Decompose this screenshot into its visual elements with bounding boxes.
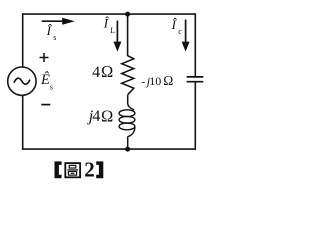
AC source E_s: sine symbol	[14, 78, 30, 84]
wire: right upper segment	[194, 13, 196, 76]
svg-text:Ω: Ω	[163, 73, 173, 88]
svg-text:Ω: Ω	[101, 62, 113, 81]
svg-text:4: 4	[92, 108, 100, 125]
svg-text:L: L	[110, 26, 115, 35]
arrow: I_s current (right)	[42, 18, 75, 25]
caption: right lenticular bracket	[96, 161, 103, 178]
label: - polarity	[41, 104, 50, 106]
caption: CJK character tu (figure)	[65, 163, 80, 177]
label: j4 ohm	[87, 107, 113, 126]
resistor 4ohm: zigzag	[122, 56, 134, 95]
wire: middle branch upper	[127, 13, 129, 56]
svg-text:c: c	[178, 27, 182, 36]
wire: left upper segment	[22, 13, 24, 67]
svg-text:Î: Î	[103, 15, 110, 30]
label: E_s (source voltage)	[40, 71, 53, 92]
wire: bottom rail	[22, 148, 195, 150]
label: -j10 ohm	[141, 73, 173, 88]
svg-text:Î: Î	[46, 23, 53, 38]
svg-text:Ω: Ω	[101, 107, 113, 126]
node: top junction	[125, 12, 130, 17]
wire: inductor to bottom junction	[127, 136, 129, 149]
node: bottom junction	[125, 147, 130, 152]
svg-text:s: s	[50, 83, 53, 92]
wire: resistor to inductor	[127, 95, 129, 105]
arrow: I_C current (down)	[182, 20, 190, 52]
AC source E_s: circle	[8, 67, 36, 95]
svg-text:-: -	[141, 74, 145, 88]
wire: right lower segment	[194, 82, 196, 149]
label: I_L	[103, 15, 116, 35]
svg-text:4: 4	[92, 64, 100, 81]
label: I_C	[171, 17, 183, 36]
capacitor -j10ohm: plates	[187, 77, 204, 82]
caption: left lenticular bracket	[55, 161, 62, 178]
arrow: I_L current (down)	[113, 21, 121, 52]
wire: top rail	[22, 13, 195, 15]
svg-text:10: 10	[149, 74, 161, 88]
label: 4 ohm	[92, 62, 113, 81]
svg-text:s: s	[53, 33, 56, 42]
wire: left lower segment	[22, 95, 24, 149]
label: I_s	[46, 23, 57, 42]
svg-text:Ê: Ê	[40, 71, 50, 88]
inductor j4ohm: coil	[119, 104, 135, 137]
label: + polarity	[40, 53, 49, 62]
svg-text:Î: Î	[171, 17, 178, 32]
svg-text:2: 2	[84, 158, 95, 182]
